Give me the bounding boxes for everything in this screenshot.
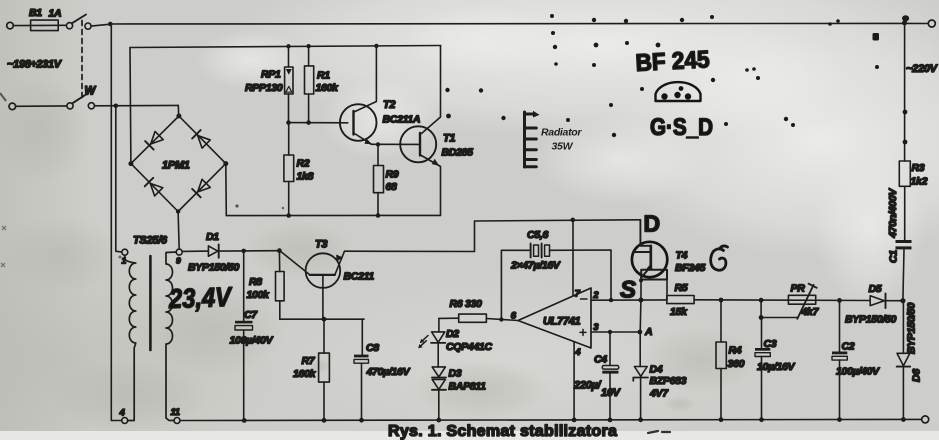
capacitor C4 220u/10V bbox=[573, 332, 622, 420]
svg-text:C2: C2 bbox=[842, 341, 855, 353]
node: rail junction bbox=[108, 22, 113, 27]
LED D2 CQP441C bbox=[418, 318, 492, 367]
node C5,6 left bbox=[499, 317, 503, 321]
wire mains vertical to transformer terminal 1 bbox=[116, 106, 122, 252]
svg-text:R8: R8 bbox=[249, 276, 262, 288]
potentiometer RP1 RPP130 bbox=[245, 46, 293, 122]
svg-text:1k8: 1k8 bbox=[297, 171, 314, 183]
svg-text:BF 245: BF 245 bbox=[635, 46, 710, 77]
resistor R7 160k bbox=[293, 319, 329, 420]
heatsink Radiator 35W bbox=[525, 111, 583, 167]
svg-text:R1: R1 bbox=[317, 70, 330, 82]
node R9 top bbox=[376, 142, 380, 146]
node rail D6 bbox=[901, 417, 906, 422]
svg-text:BF245: BF245 bbox=[675, 262, 705, 274]
zener D4 BZP683 4V7 bbox=[633, 332, 686, 420]
output terminal bottom right bbox=[922, 416, 929, 423]
svg-text:R9: R9 bbox=[386, 168, 399, 180]
svg-text:R4: R4 bbox=[729, 345, 742, 357]
node C4 bbox=[608, 330, 612, 334]
wire bbox=[16, 105, 67, 107]
node A bbox=[638, 330, 643, 335]
node rail R7 bbox=[322, 418, 327, 423]
handwritten G bbox=[711, 246, 728, 270]
input terminal N bbox=[9, 103, 16, 110]
wire pin 2 bbox=[591, 299, 667, 301]
diode D1 BYP150/50 bbox=[182, 231, 244, 274]
svg-text:11: 11 bbox=[171, 407, 180, 418]
node C7 top bbox=[241, 249, 246, 254]
wire bbox=[244, 250, 280, 252]
node S (T4 source) bbox=[638, 298, 643, 303]
wire T1 base bbox=[371, 143, 419, 145]
node rail C3 bbox=[759, 417, 764, 422]
primary winding bbox=[125, 255, 136, 420]
transistor T4 BF245 bbox=[632, 220, 706, 300]
wire T3 emitter to supply corner bbox=[345, 220, 641, 252]
wire T2 base bbox=[289, 122, 348, 124]
diode D5 BYP150/50 bbox=[845, 283, 903, 326]
svg-text:9: 9 bbox=[176, 256, 181, 266]
node op-amp pin7 supply bbox=[571, 218, 576, 223]
svg-text:BYP150/50: BYP150/50 bbox=[906, 303, 918, 354]
potentiometer PR 4k7 bbox=[761, 283, 819, 319]
terminal 4 bbox=[122, 418, 128, 424]
svg-text:T4: T4 bbox=[676, 250, 688, 262]
svg-text:W: W bbox=[85, 86, 97, 98]
svg-text:470µ/16V: 470µ/16V bbox=[366, 366, 411, 378]
svg-text:10V: 10V bbox=[601, 387, 622, 399]
terminal 11 bbox=[174, 418, 180, 424]
svg-text:~198÷231V: ~198÷231V bbox=[7, 59, 63, 71]
wire bridge right corner down bbox=[225, 164, 228, 216]
resistor R6 330 bbox=[439, 298, 487, 322]
svg-text:C3: C3 bbox=[764, 338, 777, 350]
svg-text:PR: PR bbox=[791, 283, 806, 295]
wire bbox=[907, 22, 928, 24]
resistor R3 1k2 bbox=[899, 23, 927, 240]
transistor T1 BD285 bbox=[400, 46, 473, 216]
svg-text:160k: 160k bbox=[293, 368, 317, 380]
resistor R5 15k bbox=[667, 282, 694, 318]
node RP1 bottom / base wire bbox=[286, 120, 291, 125]
svg-text:T3: T3 bbox=[315, 239, 327, 251]
svg-text:C4: C4 bbox=[594, 354, 607, 366]
svg-text:C1: C1 bbox=[888, 250, 900, 263]
svg-text:1k2: 1k2 bbox=[911, 176, 928, 188]
transformer TS25/6 bbox=[119, 235, 234, 424]
resistor R9 68 bbox=[374, 144, 399, 215]
wire pin 7 bbox=[572, 220, 574, 296]
terminal 1 bbox=[122, 249, 128, 255]
svg-text:D: D bbox=[644, 211, 661, 237]
wire bbox=[13, 24, 42, 26]
diode top-left bbox=[145, 131, 163, 149]
node R2 bottom bbox=[286, 213, 291, 218]
svg-text:Rys. 1. Schemat stabilizatora: Rys. 1. Schemat stabilizatora bbox=[388, 423, 617, 440]
wire subcircuit bottom bbox=[226, 214, 440, 216]
svg-text:D2: D2 bbox=[446, 328, 459, 340]
svg-text:T1: T1 bbox=[443, 133, 455, 145]
svg-text:1A: 1A bbox=[49, 8, 62, 20]
svg-text:D3: D3 bbox=[449, 368, 462, 380]
wire pin 6 bbox=[486, 319, 518, 321]
dashed switch link bbox=[81, 21, 83, 100]
wire output rail right bbox=[694, 299, 870, 302]
node C5,6 right to pin 2 bbox=[609, 298, 613, 302]
svg-text:TS25/6: TS25/6 bbox=[133, 235, 168, 247]
terminal 9 bbox=[176, 249, 182, 255]
svg-text:100k: 100k bbox=[247, 289, 271, 301]
node rail C2 bbox=[837, 417, 842, 422]
svg-text:UL7741: UL7741 bbox=[543, 316, 581, 328]
wire bridge left corner up bbox=[129, 48, 132, 164]
capacitor C5,6 2x47u/16V bbox=[501, 229, 611, 320]
svg-text:4: 4 bbox=[574, 347, 581, 358]
node rail C7 bbox=[242, 418, 247, 423]
svg-text:BYP150/50: BYP150/50 bbox=[188, 262, 239, 274]
node T2 collector top bbox=[374, 44, 378, 48]
svg-text:100µ/40V: 100µ/40V bbox=[836, 366, 880, 378]
svg-text:D6: D6 bbox=[911, 369, 923, 382]
wire pin 3 bbox=[591, 331, 641, 333]
core bbox=[149, 256, 152, 350]
svg-text:Radiator: Radiator bbox=[541, 127, 582, 139]
node T3 base bbox=[322, 317, 327, 322]
svg-text:23,4V: 23,4V bbox=[168, 282, 234, 314]
node on W line bbox=[114, 104, 119, 109]
svg-text:BD285: BD285 bbox=[442, 147, 474, 159]
svg-text:1PM1: 1PM1 bbox=[162, 160, 190, 172]
svg-text:RPP130: RPP130 bbox=[245, 82, 283, 94]
svg-text:C7: C7 bbox=[244, 309, 258, 321]
capacitor C1 470n/400V bbox=[887, 188, 912, 301]
svg-text:BYP150/50: BYP150/50 bbox=[845, 314, 896, 326]
fuse B1 1A bbox=[29, 7, 66, 31]
diode D3 BAP811 (double) bbox=[432, 367, 486, 421]
wire pin 4 bbox=[573, 342, 575, 421]
svg-text:D1: D1 bbox=[206, 231, 219, 243]
svg-text:R5: R5 bbox=[675, 282, 688, 294]
node R8/T3 collector bbox=[277, 248, 282, 253]
svg-text:BZP683: BZP683 bbox=[650, 375, 687, 387]
diode bottom-left bbox=[145, 178, 163, 196]
svg-text:4V7: 4V7 bbox=[649, 388, 669, 400]
capacitor C8 470u/16V bbox=[354, 319, 411, 420]
diode top-right bbox=[192, 130, 210, 148]
svg-text:D5: D5 bbox=[869, 283, 882, 295]
secondary winding bbox=[166, 252, 176, 421]
node R1 bottom bbox=[306, 120, 311, 125]
capacitor C2 100u/40V bbox=[832, 300, 880, 420]
svg-text:BAP811: BAP811 bbox=[449, 381, 487, 393]
switch W bbox=[67, 86, 97, 110]
svg-text:4: 4 bbox=[119, 408, 126, 419]
svg-text:G·S_D: G·S_D bbox=[650, 114, 713, 141]
svg-text:BC211: BC211 bbox=[344, 271, 375, 283]
svg-text:BC211A: BC211A bbox=[383, 114, 421, 126]
svg-text:4k7: 4k7 bbox=[801, 306, 820, 318]
transistor T3 BC211 bbox=[280, 239, 374, 320]
svg-text:15k: 15k bbox=[670, 306, 688, 318]
svg-text:C8: C8 bbox=[366, 342, 379, 354]
wire top rail bbox=[110, 22, 904, 25]
svg-text:A: A bbox=[644, 326, 652, 338]
svg-text:R3: R3 bbox=[912, 162, 925, 174]
wire W line bbox=[95, 104, 179, 106]
wire S to A to D4 bbox=[639, 300, 642, 332]
resistor R2 1k8 bbox=[284, 123, 314, 216]
svg-text:100µ/40V: 100µ/40V bbox=[230, 335, 274, 347]
svg-text:S: S bbox=[620, 277, 636, 304]
node C3/PR wiper branch bbox=[759, 298, 764, 303]
svg-text:10µ/16V: 10µ/16V bbox=[757, 361, 796, 373]
input terminal L bbox=[7, 22, 14, 29]
resistor R1 160k bbox=[305, 46, 340, 122]
svg-text:~220V: ~220V bbox=[906, 63, 939, 75]
node: right rail junction bbox=[902, 15, 909, 25]
node rail C8 bbox=[359, 418, 364, 423]
node rail C4 bbox=[608, 418, 613, 423]
node R9 bottom bbox=[376, 213, 381, 218]
speckles bbox=[445, 14, 907, 144]
capacitor C7 100u/40V bbox=[230, 251, 274, 420]
capacitor C3 10u/16V bbox=[755, 300, 796, 420]
output terminal top right bbox=[928, 20, 935, 27]
resistor R4 360 bbox=[716, 300, 745, 420]
wire mains vertical to transformer terminal 4 bbox=[111, 24, 121, 421]
node R4 bbox=[719, 298, 724, 303]
diode D6 BYP150/50 bbox=[897, 301, 923, 420]
handwritten BF245 pinout package bbox=[656, 82, 701, 101]
wire bridge bottom to terminal 9 bbox=[178, 212, 179, 250]
svg-text:160k: 160k bbox=[316, 82, 340, 94]
svg-text:CQP441C: CQP441C bbox=[446, 341, 492, 353]
node rail D4 bbox=[638, 417, 643, 422]
svg-text:B1: B1 bbox=[29, 7, 42, 19]
wire subcircuit top bbox=[130, 46, 441, 48]
svg-text:68: 68 bbox=[386, 181, 398, 193]
node D5/C1/D6 bbox=[900, 298, 905, 303]
svg-text:C5,6: C5,6 bbox=[527, 229, 548, 241]
node rail D3 bbox=[436, 418, 441, 423]
svg-text:470n/400V: 470n/400V bbox=[887, 188, 899, 239]
svg-text:2: 2 bbox=[592, 290, 599, 301]
svg-text:R7: R7 bbox=[302, 355, 316, 367]
svg-text:T2: T2 bbox=[383, 99, 395, 111]
op-amp U1 UL7741 bbox=[511, 288, 599, 358]
node RP1 top bbox=[286, 44, 290, 48]
node rail pin4 bbox=[572, 418, 577, 423]
node R1 top bbox=[306, 44, 310, 48]
wire bottom rail bbox=[180, 419, 922, 420]
svg-text:35W: 35W bbox=[552, 141, 574, 153]
handwritten G-S-D bbox=[650, 114, 713, 141]
switch (mains) bbox=[66, 15, 110, 30]
svg-text:R2: R2 bbox=[297, 158, 310, 170]
node PR wiper bbox=[759, 315, 764, 320]
node C2 bbox=[837, 298, 842, 303]
svg-text:D4: D4 bbox=[650, 364, 663, 376]
svg-text:RP1: RP1 bbox=[261, 69, 281, 81]
transistor T2 BC211A bbox=[340, 46, 420, 144]
resistor R8 100k bbox=[247, 251, 285, 320]
svg-text:R6 330: R6 330 bbox=[450, 298, 483, 310]
svg-text:220µ/: 220µ/ bbox=[573, 380, 602, 392]
svg-text:360: 360 bbox=[728, 358, 745, 370]
node rail R4 bbox=[719, 417, 724, 422]
svg-text:2×47µ/16V: 2×47µ/16V bbox=[510, 260, 561, 272]
bridge rectifier 1PM1 bbox=[128, 114, 228, 214]
wire to bridge top bbox=[177, 105, 179, 116]
diode bottom-right bbox=[192, 179, 210, 197]
wire R8 bottom to T3 base bbox=[280, 318, 364, 320]
